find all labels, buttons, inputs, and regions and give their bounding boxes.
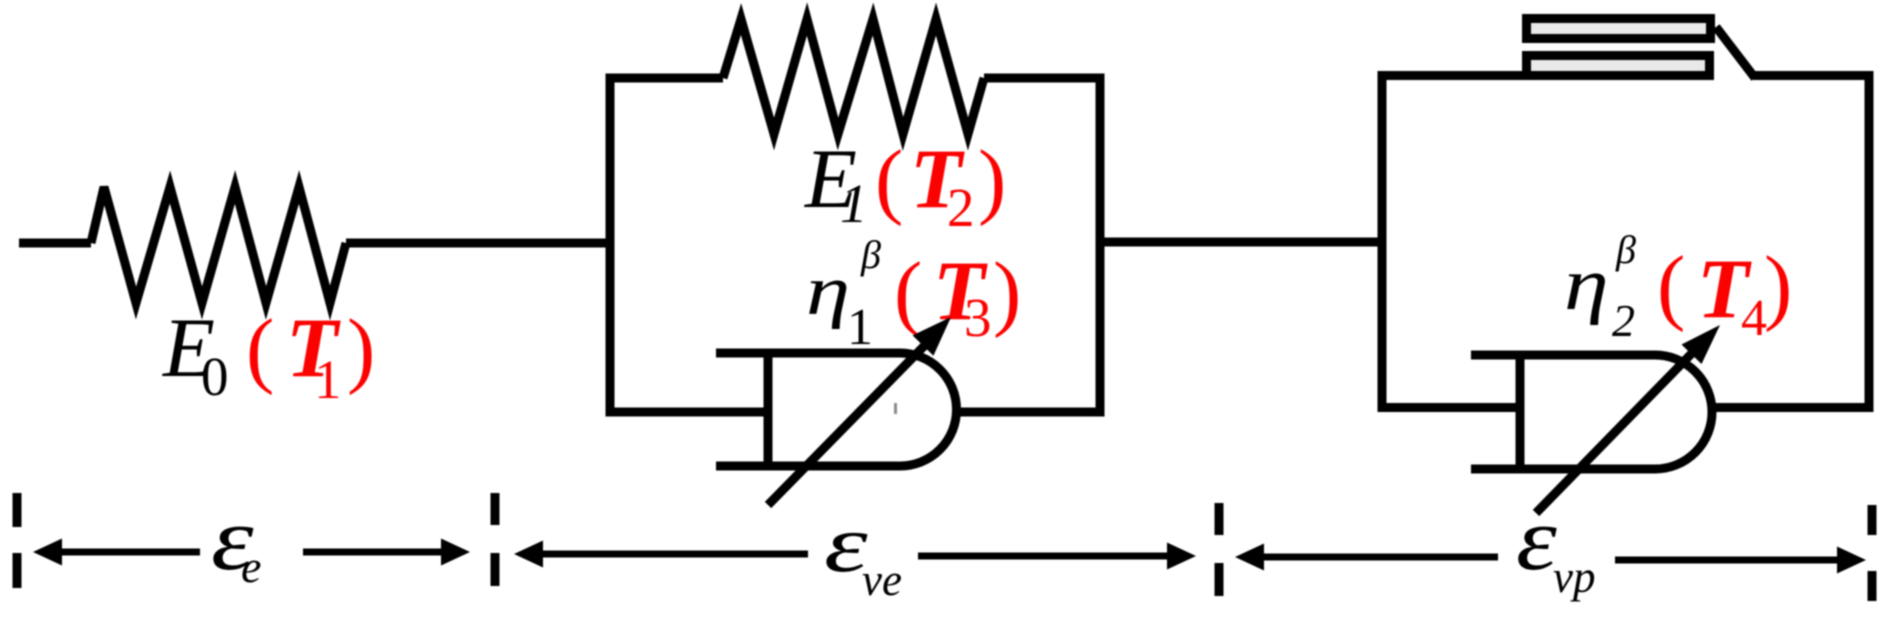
svg-text:ve: ve [862, 555, 902, 605]
label E1 (T2) [804, 132, 1006, 238]
strain extent arrow: epsilon_e right [303, 539, 470, 566]
dashpot eta2: cylinder top wall [1471, 351, 1655, 360]
dashpot eta1: cylinder top wall [716, 349, 900, 358]
dashpot eta2: rounded right cap [1655, 355, 1712, 469]
viscoplastic unit frame: left half [1382, 76, 1714, 408]
strain extent arrow: epsilon_ve right [918, 543, 1196, 570]
dashpot eta1: cylinder bottom wall [716, 462, 900, 471]
Kelvin unit frame: left half [610, 78, 768, 412]
svg-text:0: 0 [201, 346, 229, 407]
wire: Kelvin unit to viscoplastic unit [1100, 238, 1382, 247]
svg-text:e: e [241, 541, 261, 592]
label epsilon_vp [1516, 489, 1595, 602]
svg-text:1: 1 [314, 349, 342, 410]
label epsilon_e [211, 488, 261, 592]
svg-text:β: β [1615, 227, 1636, 272]
svg-text:): ) [1764, 239, 1792, 333]
viscoplastic unit frame: right half [1712, 76, 1869, 408]
strain divider mark 1 [13, 493, 22, 588]
strain divider mark 3 [1215, 503, 1224, 596]
svg-text:): ) [993, 245, 1021, 339]
Kelvin unit frame: right half [956, 78, 1100, 412]
dashpot eta1: rounded right cap [900, 353, 957, 466]
svg-text:3: 3 [964, 287, 992, 348]
svg-text:(: ( [894, 245, 922, 339]
strain extent arrow: epsilon_vp right [1615, 547, 1866, 574]
svg-text:1: 1 [840, 173, 868, 234]
strain extent arrow: epsilon_e left [33, 539, 200, 566]
svg-text:): ) [978, 133, 1006, 227]
svg-text:(: ( [875, 133, 903, 227]
svg-text:2: 2 [947, 177, 975, 238]
svg-text:η: η [1564, 242, 1609, 325]
svg-text:): ) [347, 302, 375, 396]
arrow through dashpot eta2 [1536, 325, 1720, 513]
wire: spring E0 to Kelvin unit [346, 239, 612, 248]
label epsilon_ve [824, 499, 902, 605]
dashpot eta1: piston plate [764, 349, 773, 470]
wire: left input lead [19, 239, 91, 248]
strain divider mark 4 [1868, 505, 1877, 601]
stray tick inside dashpot eta1 [894, 403, 897, 414]
arrow through dashpot eta1 [768, 317, 951, 505]
label eta1^beta (T3) [806, 232, 1021, 356]
strain extent arrow: epsilon_vp left [1235, 544, 1498, 571]
svg-text:η: η [806, 251, 850, 330]
svg-text:β: β [860, 232, 881, 277]
dashpot eta2: piston plate [1516, 351, 1525, 473]
svg-text:2: 2 [1612, 295, 1635, 346]
friction slider: link to frame [1716, 27, 1755, 78]
strain divider mark 2 [491, 493, 500, 586]
label eta2^beta (T4) [1564, 227, 1792, 347]
svg-text:(: ( [246, 302, 274, 396]
svg-text:(: ( [1657, 239, 1685, 333]
svg-text:1: 1 [847, 299, 873, 356]
svg-text:ε: ε [1516, 489, 1558, 588]
spring E0 [91, 187, 346, 303]
label E0 (T1) [162, 301, 375, 410]
strain extent arrow: epsilon_ve left [514, 541, 808, 568]
spring E1 [723, 19, 984, 134]
friction slider: bottom plate [1527, 56, 1710, 76]
svg-text:vp: vp [1553, 552, 1595, 602]
friction slider: top plate [1527, 19, 1711, 39]
dashpot eta2: cylinder bottom wall [1471, 465, 1655, 474]
